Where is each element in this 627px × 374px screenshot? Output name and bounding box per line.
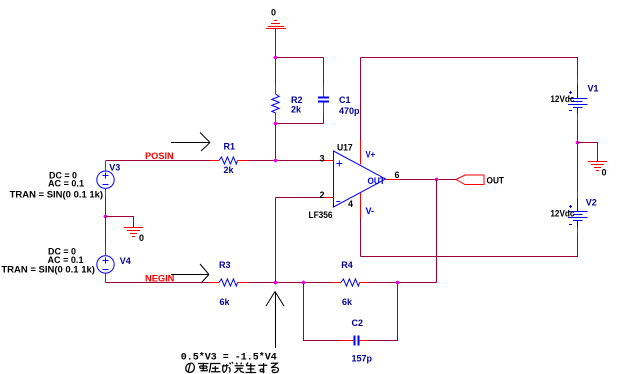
svg-text:470p: 470p xyxy=(339,106,360,116)
svg-text:V4: V4 xyxy=(120,256,131,266)
pin 2 stub xyxy=(321,197,333,199)
wire: C2 right riser xyxy=(370,283,398,341)
svg-text:6k: 6k xyxy=(220,297,231,307)
battery V2 12Vdc xyxy=(568,192,588,234)
node: junction R2/C1 bottom xyxy=(274,122,278,126)
capacitor C2 xyxy=(341,336,370,346)
wire: junction to V2 xyxy=(577,143,579,193)
svg-text:V+: V+ xyxy=(366,150,376,160)
svg-text:4: 4 xyxy=(348,199,353,209)
svg-text:2k: 2k xyxy=(224,165,235,175)
svg-text:AC = 0.1: AC = 0.1 xyxy=(48,179,84,189)
svg-text:V1: V1 xyxy=(588,84,599,94)
wire: V3 to junction xyxy=(105,197,107,217)
wire: V- rail riser xyxy=(360,218,362,257)
op-amp minus mark (pin 2 input) xyxy=(336,201,340,203)
svg-text:0: 0 xyxy=(271,8,276,18)
svg-text:R2: R2 xyxy=(291,95,303,105)
voltage source V3 xyxy=(97,161,114,197)
svg-text:POSIN: POSIN xyxy=(145,151,174,161)
annotation arrow (POSIN) xyxy=(171,133,210,152)
svg-text:V2: V2 xyxy=(586,198,597,208)
wire: POSIN net from V3 to R1 xyxy=(106,160,210,162)
port OUT xyxy=(456,175,484,185)
wire: feedback riser xyxy=(436,180,438,283)
svg-text:0: 0 xyxy=(139,233,144,243)
ground 0 (top) xyxy=(266,21,286,29)
resistor R3 xyxy=(210,279,248,286)
svg-text:157p: 157p xyxy=(352,354,373,364)
svg-text:C2: C2 xyxy=(352,318,364,328)
svg-text:V-: V- xyxy=(366,206,375,216)
svg-text:LF356: LF356 xyxy=(309,210,333,220)
wire: R3 to R4 xyxy=(248,282,332,284)
wire: top rail R2 junction to C1 xyxy=(275,57,324,59)
svg-text:C1: C1 xyxy=(339,95,351,105)
svg-text:OUT: OUT xyxy=(487,176,505,186)
op-amp U1 (U17 LF356) triangle xyxy=(334,151,386,207)
svg-text:R4: R4 xyxy=(341,260,353,270)
svg-text:0: 0 xyxy=(602,168,607,178)
resistor R4 xyxy=(332,279,370,286)
node: junction top (R2 top) xyxy=(274,56,278,60)
ground 0 (left) xyxy=(124,228,143,237)
wire: bottom rail to V2 xyxy=(361,233,578,257)
pin V+ stub xyxy=(360,140,362,165)
svg-text:3: 3 xyxy=(320,154,325,164)
annotation arrow (NEGIN) xyxy=(171,264,209,283)
wire: pin 2 riser down to NEGIN node xyxy=(275,198,277,283)
node: junction V3/V4/ground xyxy=(104,215,108,219)
node: junction C2 left xyxy=(302,281,306,285)
pin 3 stub xyxy=(321,160,333,162)
wire: pin 2 horizontal xyxy=(276,197,322,199)
resistor R1 xyxy=(210,157,248,164)
wire: junction to left ground xyxy=(106,217,134,228)
svg-text:12Vdc: 12Vdc xyxy=(550,94,574,104)
wire: R2/C1 bottom rail xyxy=(275,123,324,125)
node: junction V1/V2/ground xyxy=(576,141,580,145)
node: junction R1/R2/pin3 xyxy=(274,159,278,163)
voltage source V4 xyxy=(97,247,114,283)
node: junction R4/C2 right xyxy=(396,281,400,285)
svg-text:OUT: OUT xyxy=(368,176,386,186)
node: junction output/feedback xyxy=(435,178,439,182)
ground 0 (right) xyxy=(588,162,607,171)
op-amp plus mark (pin 3 input) xyxy=(336,161,342,167)
svg-text:2: 2 xyxy=(320,190,325,200)
capacitor C1 xyxy=(318,86,329,115)
svg-text:AC = 0.1: AC = 0.1 xyxy=(48,255,84,265)
annotation text (Japanese) no denatsu ga hassei suru xyxy=(186,362,279,373)
wire: R2 top segment xyxy=(275,58,277,86)
pin 6 stub (output) xyxy=(386,179,401,181)
svg-text:R3: R3 xyxy=(219,260,231,270)
wire: V1 to junction xyxy=(577,120,579,143)
wire: NEGIN net from V4 to R3 xyxy=(106,282,210,284)
svg-text:NEGIN: NEGIN xyxy=(145,274,174,284)
svg-text:2k: 2k xyxy=(291,105,302,115)
wire: riser R2 bottom to POSIN line xyxy=(275,124,277,161)
wire: C2 left drop xyxy=(304,283,342,341)
wire: junction to right ground xyxy=(578,143,598,162)
annotation arrow (up, at feedback node) xyxy=(266,292,284,349)
node: junction pin2 riser / R3 / R4 xyxy=(274,281,278,285)
svg-text:12Vdc: 12Vdc xyxy=(550,209,574,219)
svg-text:6k: 6k xyxy=(342,297,353,307)
wire: top ground stem xyxy=(275,29,277,58)
wire: junction to V4 xyxy=(105,217,107,248)
svg-text:TRAN = SIN(0 0.1 1k): TRAN = SIN(0 0.1 1k) xyxy=(10,190,104,200)
svg-text:6: 6 xyxy=(395,170,400,180)
svg-text:R1: R1 xyxy=(224,141,236,151)
svg-text:U17: U17 xyxy=(337,143,353,153)
wire: output to port xyxy=(400,179,456,181)
svg-text:V3: V3 xyxy=(109,163,120,173)
wire: R1 to pin 3 xyxy=(248,160,322,162)
resistor R2 xyxy=(272,85,279,123)
wire: C1 top segment xyxy=(323,58,325,87)
wire: V+ rail riser xyxy=(360,58,362,142)
pin V- stub xyxy=(360,193,362,218)
svg-text:TRAN = SIN(0 0.1 1k): TRAN = SIN(0 0.1 1k) xyxy=(1,265,95,275)
wire: C1 bottom segment xyxy=(323,114,325,124)
battery V1 12Vdc xyxy=(568,78,588,121)
wire: top rail to V1 xyxy=(361,58,578,79)
wire: R4 to feedback riser xyxy=(370,282,437,284)
svg-text:0.5*V3 = -1.5*V4: 0.5*V3 = -1.5*V4 xyxy=(181,352,277,364)
